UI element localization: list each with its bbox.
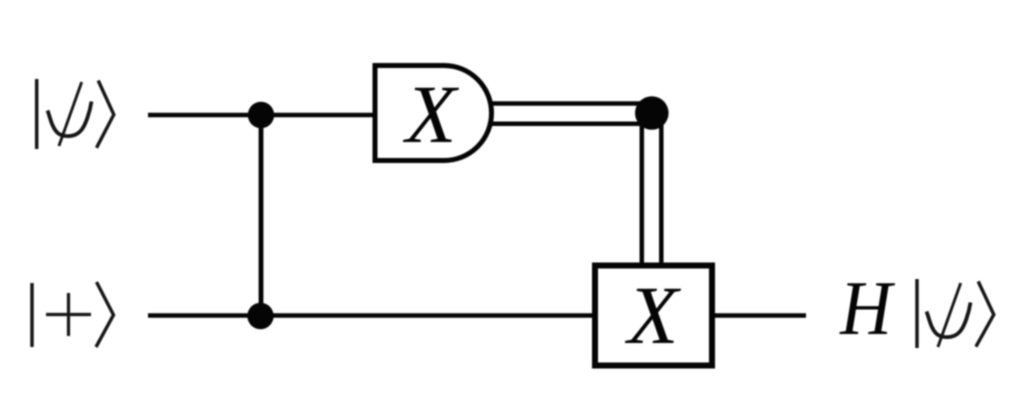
svg-text:X: X: [625, 269, 682, 361]
svg-text:X: X: [403, 68, 460, 160]
svg-text:H: H: [839, 267, 896, 352]
